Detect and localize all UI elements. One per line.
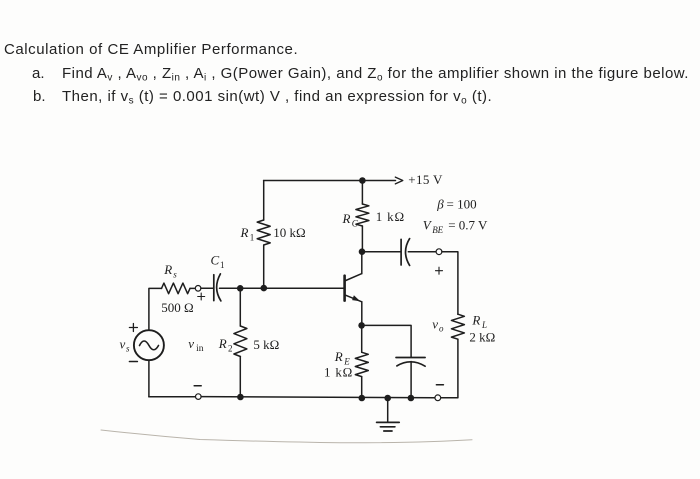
wire emitter vertical	[361, 302, 363, 326]
svg-text:s: s	[173, 270, 177, 280]
svg-text:5 kΩ: 5 kΩ	[253, 337, 279, 352]
svg-text:500 Ω: 500 Ω	[161, 300, 193, 315]
label vs	[120, 337, 131, 354]
svg-text:v: v	[432, 317, 438, 332]
label VBE = 0.7 V	[423, 217, 488, 235]
wire RC lower	[361, 226, 363, 252]
node dot R1 junction	[261, 285, 268, 292]
wire top rail	[264, 180, 396, 182]
node dot C1/R2 junction	[237, 285, 244, 292]
svg-text:R: R	[471, 313, 480, 328]
input bottom terminal	[196, 394, 202, 400]
svg-text:R: R	[334, 349, 343, 364]
plus mark output	[436, 267, 443, 274]
svg-text:v: v	[120, 337, 126, 352]
node dot bypass cap bottom	[408, 395, 415, 402]
svg-text:s: s	[126, 344, 130, 354]
label vo	[432, 317, 444, 334]
wire RC upper	[361, 181, 363, 205]
paper crease line	[101, 430, 472, 443]
svg-text:R: R	[240, 225, 249, 240]
label 500 ohm	[161, 300, 193, 315]
wire R2 lower	[239, 357, 241, 398]
label RC	[342, 211, 359, 229]
wire R2 upper	[239, 288, 241, 326]
svg-text:2 kΩ: 2 kΩ	[469, 329, 495, 344]
svg-text:in: in	[196, 344, 204, 354]
plus mark at input terminal	[198, 293, 205, 300]
wire R1 upper	[263, 181, 265, 221]
bypass capacitor CE	[396, 358, 425, 367]
wire Rs to input terminal	[190, 287, 195, 289]
node dot R2 bottom	[237, 394, 244, 401]
svg-text:C: C	[352, 218, 359, 228]
label 10 kohm	[273, 225, 305, 240]
label C1	[211, 253, 225, 271]
output terminal top	[436, 249, 442, 255]
label Rs	[163, 262, 177, 280]
resistor RL	[451, 314, 464, 339]
title line	[4, 41, 298, 58]
label +15 V	[408, 172, 443, 187]
capacitor C1	[214, 274, 221, 301]
label 1 kohm RC	[376, 209, 405, 224]
svg-text:R: R	[342, 211, 351, 226]
wire emitter to bypass cap	[362, 325, 412, 357]
resistor RE	[355, 352, 368, 376]
wire RE lower	[361, 377, 363, 398]
node dot ground junction	[384, 395, 391, 402]
svg-text:R: R	[163, 262, 172, 277]
label 5 kohm	[253, 337, 279, 352]
svg-text:o: o	[439, 323, 444, 333]
svg-text:V: V	[423, 217, 433, 232]
wire source bottom	[148, 360, 150, 397]
svg-text:C: C	[211, 253, 220, 268]
label beta = 100	[436, 197, 476, 212]
svg-text:1: 1	[250, 233, 255, 243]
resistor R1	[257, 220, 270, 245]
node dot top rail RC	[359, 177, 366, 184]
svg-text:1 kΩ: 1 kΩ	[376, 209, 405, 224]
svg-text:β: β	[436, 197, 444, 212]
wire terminal to C1	[201, 287, 213, 289]
wire cap to output terminal	[408, 251, 436, 253]
wire bypass cap to rail	[410, 362, 412, 398]
svg-text:v: v	[188, 336, 194, 351]
wire C1 to base line	[220, 287, 345, 289]
label R1	[240, 225, 255, 243]
node dot emitter junction	[358, 322, 365, 329]
node dot collector junction	[359, 248, 366, 255]
resistor RC	[356, 204, 369, 226]
label 1 kohm RE	[324, 365, 353, 380]
svg-text:= 0.7 V: = 0.7 V	[448, 217, 488, 232]
resistor Rs	[162, 283, 191, 294]
svg-text:+15 V: +15 V	[408, 172, 443, 187]
svg-text:2: 2	[228, 344, 233, 354]
ground	[377, 398, 400, 431]
label RE	[334, 349, 350, 367]
vs plus sign	[129, 324, 137, 332]
transistor Q1	[345, 274, 362, 302]
svg-text:1: 1	[220, 260, 225, 270]
svg-text:R: R	[218, 336, 227, 351]
output terminal bottom	[435, 395, 441, 401]
vs minus sign	[129, 361, 137, 363]
input top terminal	[195, 286, 201, 292]
svg-text:= 100: = 100	[447, 197, 477, 212]
item a	[32, 65, 45, 82]
resistor R2	[234, 326, 247, 357]
svg-text:10 kΩ: 10 kΩ	[273, 225, 305, 240]
wire collector vertical	[361, 252, 363, 274]
minus mark output bottom	[436, 384, 443, 386]
label RL	[471, 313, 487, 331]
svg-text:1 kΩ: 1 kΩ	[324, 365, 353, 380]
wire collector to output cap	[362, 251, 400, 253]
wire output terminal to RL top	[442, 252, 458, 315]
source vs circle	[134, 330, 164, 360]
node dot RE bottom	[359, 395, 366, 402]
minus mark input bottom	[194, 385, 201, 387]
svg-text:BE: BE	[432, 225, 443, 235]
item b	[33, 88, 46, 105]
+15V arrowhead	[395, 177, 403, 184]
output capacitor	[401, 239, 410, 266]
wire R1 lower	[263, 245, 265, 288]
label 2 kohm	[469, 329, 495, 344]
wire source top	[149, 288, 162, 330]
wire RL bottom to output bottom terminal	[441, 339, 458, 398]
wire bottom rail main	[201, 397, 435, 398]
label R2	[218, 336, 233, 354]
wire RE upper	[361, 325, 363, 352]
wire bottom rail left	[149, 396, 196, 398]
label vin	[188, 336, 203, 354]
